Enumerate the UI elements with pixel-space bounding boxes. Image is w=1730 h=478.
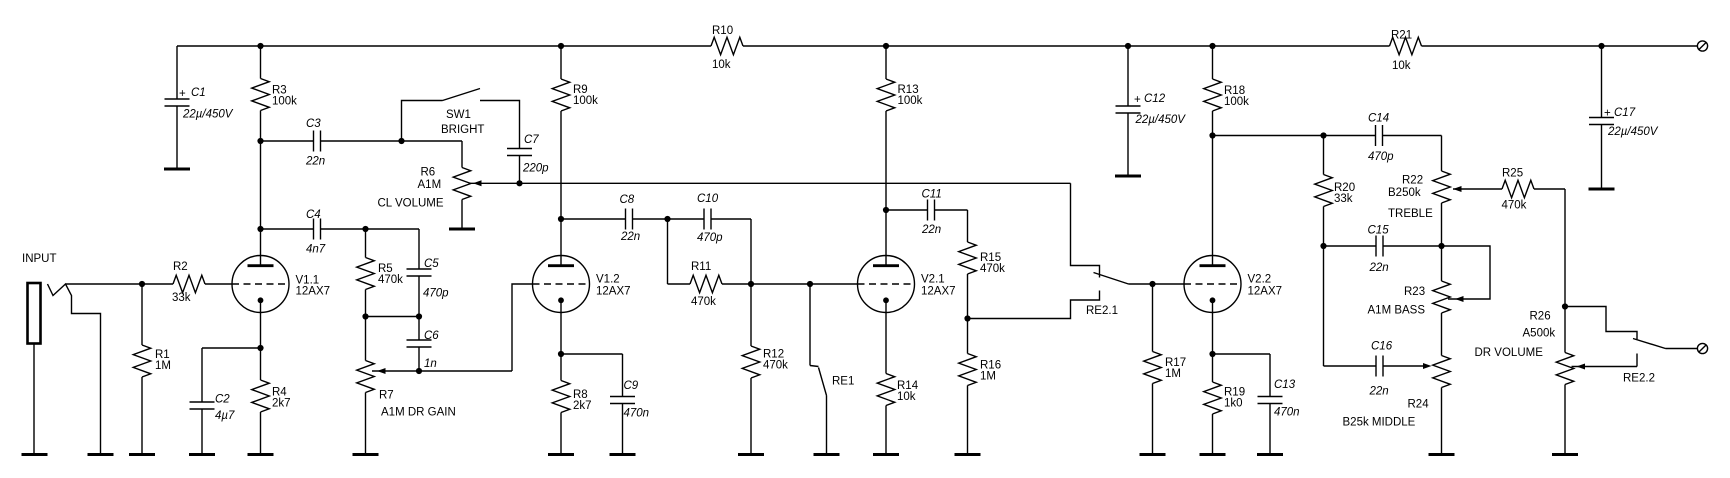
junction: wire/RE1 xyxy=(807,281,813,287)
junction: wiper/C7 xyxy=(516,180,522,186)
ground: C13 xyxy=(1257,454,1283,456)
svg-text:470n: 470n xyxy=(1274,407,1300,419)
svg-text:C15: C15 xyxy=(1368,225,1390,237)
svg-text:470n: 470n xyxy=(624,408,650,420)
capacitor C5 470p xyxy=(407,229,450,317)
potentiometer R22 B250k TREBLE xyxy=(1388,171,1462,246)
svg-text:100k: 100k xyxy=(1224,96,1249,108)
svg-text:22µ/450V: 22µ/450V xyxy=(1607,126,1659,138)
junction: rail/R3 xyxy=(257,43,263,49)
terminal: B+ output top right xyxy=(1697,41,1707,51)
svg-text:C1: C1 xyxy=(191,87,206,99)
svg-text:RE1: RE1 xyxy=(832,376,854,388)
potentiometer R24 B25k MIDDLE xyxy=(1343,356,1451,455)
junction: C3 out/SW1 xyxy=(398,138,404,144)
relay contact RE1 xyxy=(810,284,854,455)
svg-text:22n: 22n xyxy=(1369,262,1389,274)
resistor R15 470k xyxy=(959,242,1005,319)
capacitor C15 22n xyxy=(1324,225,1442,275)
svg-text:C13: C13 xyxy=(1274,379,1296,391)
svg-text:22n: 22n xyxy=(1369,386,1389,398)
resistor R16 1M xyxy=(959,319,1001,455)
svg-text:470k: 470k xyxy=(378,274,403,286)
wire: cathode V1.1 xyxy=(260,313,262,349)
potentiometer R7 A1M DR GAIN xyxy=(357,317,456,455)
ground: R16 xyxy=(955,454,981,456)
ground: R14 xyxy=(873,454,899,456)
svg-text:22n: 22n xyxy=(620,231,640,243)
svg-text:DR VOLUME: DR VOLUME xyxy=(1475,347,1544,359)
svg-text:B25k MIDDLE: B25k MIDDLE xyxy=(1343,417,1416,429)
ground: C2 xyxy=(189,454,215,456)
svg-text:100k: 100k xyxy=(272,96,297,108)
svg-text:INPUT: INPUT xyxy=(22,253,57,265)
svg-text:R11: R11 xyxy=(691,261,711,273)
svg-text:C10: C10 xyxy=(697,193,719,205)
svg-text:A1M: A1M xyxy=(418,179,442,191)
resistor R1 1M xyxy=(133,284,171,455)
svg-text:C12: C12 xyxy=(1144,93,1166,105)
svg-text:470p: 470p xyxy=(423,288,449,300)
junction: cathode V2.2/R19/C13 xyxy=(1209,351,1215,357)
wire: cathode V1.2 xyxy=(560,313,562,355)
capacitor C13 470n xyxy=(1213,354,1300,455)
resistor R12 470k xyxy=(742,284,788,455)
svg-text:C2: C2 xyxy=(215,394,230,406)
junction: R3/plate V1.1/C3 xyxy=(257,138,263,144)
svg-text:C17: C17 xyxy=(1614,107,1636,119)
resistor R3 100k xyxy=(252,46,297,141)
ground: C17 xyxy=(1589,188,1615,190)
svg-text:C5: C5 xyxy=(424,258,439,270)
svg-text:R10: R10 xyxy=(712,25,733,37)
svg-text:+: + xyxy=(179,88,186,100)
svg-text:470p: 470p xyxy=(697,232,723,244)
svg-text:10k: 10k xyxy=(1392,60,1411,72)
junction: C5/C6 xyxy=(416,313,422,319)
svg-text:2k7: 2k7 xyxy=(573,400,592,412)
resistor R17 1M xyxy=(1144,284,1186,455)
junction: rail/R18 xyxy=(1209,43,1215,49)
junction: RE2.1/grid V2.2/R17 xyxy=(1149,281,1155,287)
capacitor C6 1n xyxy=(407,317,440,372)
svg-text:R23: R23 xyxy=(1404,286,1425,298)
svg-text:10k: 10k xyxy=(712,59,731,71)
capacitor C17 22u/450V xyxy=(1589,46,1659,189)
wire: B+ top rail left segment xyxy=(177,45,711,47)
junction: R11/C10/R12 xyxy=(748,281,754,287)
svg-text:470k: 470k xyxy=(1502,200,1527,212)
resistor R21 xyxy=(1390,30,1422,73)
capacitor C12 22u/450V xyxy=(1116,46,1187,176)
svg-text:A500k: A500k xyxy=(1523,328,1556,340)
wire: R5/C5 bottom link xyxy=(366,316,420,318)
wire: cathode V2.1 xyxy=(885,313,887,374)
ground: R26 xyxy=(1552,454,1578,456)
svg-text:1n: 1n xyxy=(424,358,437,370)
junction: rail/C17 xyxy=(1598,43,1604,49)
svg-text:R26: R26 xyxy=(1530,311,1551,323)
svg-text:R25: R25 xyxy=(1502,168,1523,180)
wire: DR gain wiper to grid V1.2 xyxy=(372,284,533,371)
ground: R12 xyxy=(738,454,764,456)
svg-text:470p: 470p xyxy=(1368,151,1394,163)
junction: wiper/C6 xyxy=(416,368,422,374)
capacitor C2 4u7 xyxy=(190,348,261,455)
svg-text:R22: R22 xyxy=(1402,175,1423,187)
svg-text:C16: C16 xyxy=(1371,341,1393,353)
svg-text:C14: C14 xyxy=(1368,113,1389,125)
relay contact RE2.2 xyxy=(1565,307,1698,385)
svg-text:470k: 470k xyxy=(691,296,716,308)
resistor R11 470k xyxy=(668,219,752,308)
junction: input/R1 xyxy=(139,281,145,287)
wire: input to grid V1.1 xyxy=(66,283,143,285)
svg-text:22n: 22n xyxy=(921,224,941,236)
ground: C9 xyxy=(610,454,636,456)
ground: R4 xyxy=(248,454,274,456)
svg-text:C6: C6 xyxy=(424,330,439,342)
resistor R25 470k xyxy=(1453,168,1565,307)
ground: R6 xyxy=(449,228,475,230)
capacitor C3 22n xyxy=(261,118,463,168)
svg-text:R24: R24 xyxy=(1408,399,1430,411)
capacitor C1 22u/450V xyxy=(165,46,234,169)
capacitor C4 4n7 xyxy=(261,209,420,256)
svg-text:1k0: 1k0 xyxy=(1224,398,1243,410)
junction: rail/R9 xyxy=(558,43,564,49)
svg-text:V1.2: V1.2 xyxy=(596,274,620,286)
junction: rail/C12 xyxy=(1125,43,1131,49)
svg-text:+: + xyxy=(1604,108,1611,120)
triode V2.1 12AX7 xyxy=(858,256,956,313)
junction: plate column/C4 xyxy=(257,226,263,232)
svg-text:470k: 470k xyxy=(980,263,1005,275)
ground: R17 xyxy=(1140,454,1166,456)
wire: B+ top rail right segment xyxy=(1422,45,1698,47)
svg-text:1M: 1M xyxy=(980,371,996,383)
svg-text:R7: R7 xyxy=(379,390,394,402)
switch SW1 BRIGHT xyxy=(402,89,520,149)
svg-text:C8: C8 xyxy=(620,194,635,206)
triode V1.1 12AX7 xyxy=(232,256,330,313)
svg-text:R6: R6 xyxy=(421,167,436,179)
svg-text:33k: 33k xyxy=(172,292,191,304)
resistor R4 2k7 xyxy=(252,348,291,455)
resistor R19 1k0 xyxy=(1204,354,1245,455)
potentiometer R23 A1M BASS xyxy=(1368,246,1491,356)
junction: C4/R5 xyxy=(362,226,368,232)
svg-text:2k7: 2k7 xyxy=(272,398,291,410)
svg-text:100k: 100k xyxy=(898,95,923,107)
svg-text:C3: C3 xyxy=(306,118,321,130)
svg-text:A1M BASS: A1M BASS xyxy=(1368,305,1426,317)
svg-text:10k: 10k xyxy=(897,391,916,403)
svg-text:22µ/450V: 22µ/450V xyxy=(182,109,234,121)
relay contact RE2.1 xyxy=(968,183,1153,318)
ground: R7 xyxy=(353,454,379,456)
svg-text:220p: 220p xyxy=(522,163,549,175)
capacitor C9 470n xyxy=(561,354,649,455)
svg-text:R2: R2 xyxy=(173,261,188,273)
wire: plate V2.2 lead xyxy=(1212,136,1214,256)
wire: B+ top rail middle segment xyxy=(743,45,1390,47)
svg-text:12AX7: 12AX7 xyxy=(296,286,331,298)
capacitor C16 22n xyxy=(1369,341,1429,398)
junction: R18/plate V2.2/tone feed xyxy=(1209,132,1215,138)
resistor R14 10k xyxy=(877,374,918,455)
junction: R15/R16/RE2.1 xyxy=(964,315,970,321)
svg-text:100k: 100k xyxy=(573,95,598,107)
svg-text:12AX7: 12AX7 xyxy=(921,286,956,298)
junction: rail/R13 xyxy=(883,43,889,49)
triode V2.2 12AX7 xyxy=(1184,256,1282,313)
junction: cathode V1.1/C2/R4 xyxy=(257,345,263,351)
svg-text:V2.1: V2.1 xyxy=(921,274,945,286)
svg-text:C9: C9 xyxy=(624,380,639,392)
svg-text:C11: C11 xyxy=(922,189,942,201)
svg-text:+: + xyxy=(1134,94,1141,106)
svg-text:1M: 1M xyxy=(1165,368,1181,380)
svg-text:TREBLE: TREBLE xyxy=(1388,208,1433,220)
terminal: output bottom right xyxy=(1697,343,1707,353)
capacitor C10 470p xyxy=(668,193,752,284)
svg-text:B250k: B250k xyxy=(1388,187,1421,199)
junction: R9/plate V1.2/C8 xyxy=(558,216,564,222)
wire: grid V2.2 lead xyxy=(1153,283,1185,285)
svg-text:V2.2: V2.2 xyxy=(1248,274,1272,286)
wire: plate V2.1 lead xyxy=(885,210,887,256)
svg-text:4n7: 4n7 xyxy=(306,244,326,256)
svg-text:1M: 1M xyxy=(155,360,171,372)
ground: C1 xyxy=(164,168,190,170)
svg-text:470k: 470k xyxy=(763,360,788,372)
junction: C8/C10/R11 xyxy=(664,216,670,222)
capacitor C11 22n xyxy=(886,189,968,243)
svg-text:CL VOLUME: CL VOLUME xyxy=(378,198,444,210)
wire: cathode V2.2 xyxy=(1212,313,1214,355)
svg-text:12AX7: 12AX7 xyxy=(596,286,631,298)
svg-text:33k: 33k xyxy=(1334,193,1353,205)
resistor R8 2k7 xyxy=(552,354,591,455)
junction: R13/plate V2.1/C11 xyxy=(883,207,889,213)
junction: cathode V1.2/R8/C9 xyxy=(558,351,564,357)
ground: C12 xyxy=(1115,175,1141,177)
capacitor C8 22n xyxy=(561,194,668,243)
triode V1.2 12AX7 xyxy=(533,256,631,313)
wire: plate V1.1 column xyxy=(260,141,262,256)
svg-text:22µ/450V: 22µ/450V xyxy=(1135,114,1187,126)
resistor R20 33k xyxy=(1315,136,1355,247)
junction: C15/R22/R23 xyxy=(1438,243,1444,249)
svg-text:RE2.1: RE2.1 xyxy=(1086,305,1118,317)
svg-text:RE2.2: RE2.2 xyxy=(1623,373,1655,385)
wire: CL volume wiper line to RE2.1 xyxy=(469,182,1071,184)
wire: R11 out to grid V2.1 xyxy=(751,283,858,285)
junction: R5/R7 xyxy=(362,313,368,319)
resistor R18 100k xyxy=(1204,46,1249,136)
svg-text:C4: C4 xyxy=(306,209,321,221)
ground: RE1 xyxy=(814,454,840,456)
potentiometer R26 A500k DR VOLUME xyxy=(1475,307,1638,455)
resistor R10 xyxy=(711,25,743,71)
resistor R13 100k xyxy=(877,46,922,210)
input jack J1 xyxy=(22,253,101,455)
junction: R20/C15 xyxy=(1320,243,1326,249)
ground: R1 xyxy=(129,454,155,456)
svg-text:R21: R21 xyxy=(1391,30,1412,42)
junction: R25/R26/RE2.2 xyxy=(1562,303,1568,309)
resistor R5 470k xyxy=(357,229,403,317)
svg-text:22n: 22n xyxy=(305,156,325,168)
svg-text:C7: C7 xyxy=(524,134,539,146)
ground: jack sleeve xyxy=(22,454,48,456)
wire: tone stack feed xyxy=(1213,135,1324,137)
capacitor C7 220p xyxy=(507,134,549,183)
ground: R19 xyxy=(1200,454,1226,456)
svg-text:SW1: SW1 xyxy=(446,109,471,121)
wire: plate V1.2 lead xyxy=(560,219,562,256)
junction: feed/R20 xyxy=(1320,132,1326,138)
svg-text:4µ7: 4µ7 xyxy=(215,410,235,422)
resistor R2 33k xyxy=(142,261,232,304)
svg-text:A1M DR GAIN: A1M DR GAIN xyxy=(381,407,456,419)
resistor R9 100k xyxy=(552,46,598,219)
ground: R24 xyxy=(1429,454,1455,456)
svg-text:12AX7: 12AX7 xyxy=(1248,286,1283,298)
potentiometer R6 A1M CL VOLUME xyxy=(378,141,482,229)
capacitor C14 470p xyxy=(1324,113,1442,172)
ground: R8 xyxy=(548,454,574,456)
svg-text:BRIGHT: BRIGHT xyxy=(441,124,484,136)
wire: C16 branch xyxy=(1324,246,1377,366)
ground: jack shunt xyxy=(88,454,114,456)
